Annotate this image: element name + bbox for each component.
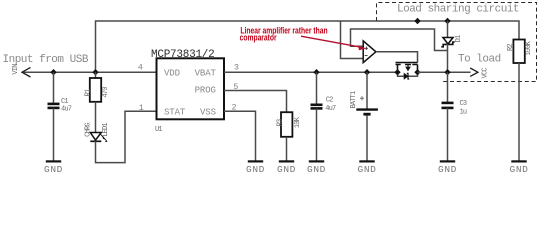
pin label STAT <box>164 107 186 117</box>
transistor Q1 body diode symbol <box>404 73 409 79</box>
wire op-amp minus input riser <box>341 21 364 59</box>
node junction MOSFET drain <box>414 69 420 75</box>
pin number 1 <box>139 103 144 113</box>
wire C3 drop <box>447 72 449 102</box>
svg-text:100K: 100K <box>525 40 533 55</box>
label CHRG <box>85 123 93 137</box>
label R2 <box>507 44 515 51</box>
pin number 4 <box>138 63 143 73</box>
ground C1 <box>44 161 63 174</box>
svg-text:Load sharing circuit: Load sharing circuit <box>397 3 519 15</box>
input arrow (from USB) <box>22 67 31 77</box>
pin number 2 <box>232 102 237 112</box>
svg-text:R2: R2 <box>507 44 515 51</box>
svg-text:R1: R1 <box>85 89 93 96</box>
diode D1 schottky <box>441 38 454 47</box>
svg-text:CHRG: CHRG <box>85 123 93 137</box>
resistor R2 <box>513 40 524 64</box>
pin label VBAT <box>195 68 217 78</box>
transistor Q1 P-MOSFET gate plate <box>396 62 418 64</box>
op-amp plus mark <box>365 47 368 50</box>
wire rail to R1 <box>95 72 97 78</box>
wire VBAT rail (pin 3) <box>224 71 398 73</box>
svg-text:GND: GND <box>277 164 296 175</box>
label Input from USB <box>3 54 89 66</box>
wire C2 to ground <box>316 109 318 162</box>
svg-text:470: 470 <box>102 87 110 98</box>
svg-text:1: 1 <box>139 103 144 113</box>
op-amp <box>363 41 376 63</box>
dashed box load sharing circuit <box>377 3 537 82</box>
svg-text:4u7: 4u7 <box>61 106 72 114</box>
wire op-amp output to gate <box>376 52 418 63</box>
svg-text:C3: C3 <box>460 100 467 108</box>
wire D1 anode drop <box>447 21 449 38</box>
label R2 value 100K <box>525 40 533 55</box>
svg-text:D1: D1 <box>455 35 463 42</box>
wire R1 to LED1 <box>95 102 97 133</box>
wire C2 drop <box>316 72 318 104</box>
IC U1 MCP73831/2 body <box>157 58 225 119</box>
svg-text:R3: R3 <box>276 119 284 126</box>
svg-text:VIN: VIN <box>12 64 20 75</box>
svg-text:STAT: STAT <box>164 107 186 117</box>
op-amp minus mark <box>365 55 368 57</box>
capacitor C2 <box>311 105 323 109</box>
resistor R3 <box>281 112 292 137</box>
svg-text:Input from USB: Input from USB <box>3 54 89 66</box>
net label VIN <box>12 64 20 75</box>
transistor Q1 channel segments <box>396 65 418 73</box>
ground C2 <box>307 161 326 174</box>
label D1 <box>455 35 463 42</box>
pin label VDD <box>164 68 180 78</box>
label U1 <box>155 126 162 134</box>
svg-text:VDD: VDD <box>164 68 180 78</box>
svg-text:GND: GND <box>44 164 63 175</box>
ground R3 <box>277 161 296 174</box>
svg-text:4u7: 4u7 <box>325 105 336 113</box>
svg-text:GND: GND <box>358 164 377 175</box>
battery BATT1 <box>356 110 378 115</box>
label C2 value <box>325 97 336 114</box>
svg-text:3: 3 <box>234 62 239 72</box>
node junction C2/rail <box>313 69 319 75</box>
svg-text:BATT1: BATT1 <box>350 91 358 109</box>
annotation red text <box>240 25 328 42</box>
svg-text:comparator: comparator <box>240 33 277 43</box>
ground R2 <box>510 161 529 174</box>
svg-text:GND: GND <box>438 164 457 175</box>
ground VSS <box>246 161 265 174</box>
node junction top wire / op-amp feed <box>414 18 420 24</box>
wire C3 to ground <box>447 108 449 161</box>
wire R2 to ground <box>518 63 520 161</box>
resistor R1 <box>90 78 101 102</box>
node junction R1/rail <box>92 69 98 75</box>
svg-text:10K: 10K <box>294 116 302 128</box>
node junction load/C3 <box>444 69 450 75</box>
label C1 value <box>61 98 72 114</box>
svg-text:VCC: VCC <box>482 68 490 79</box>
wire LED1 to STAT <box>96 111 157 162</box>
transistor Q1 body diode loop <box>398 72 418 76</box>
node junction top wire / D1 <box>444 18 450 24</box>
wire BATT1 to ground <box>366 116 368 161</box>
wire load rail <box>418 71 471 73</box>
wire top VIN feed <box>96 21 520 72</box>
ground BATT1 <box>358 161 377 174</box>
label BATT1 <box>350 91 358 109</box>
wire VIN rail <box>22 71 157 73</box>
pin number 3 <box>234 62 239 72</box>
label C3 value <box>460 100 467 117</box>
pin number 5 <box>233 82 238 92</box>
svg-text:C2: C2 <box>326 97 333 105</box>
capacitor C1 <box>48 104 60 108</box>
label Load sharing circuit <box>397 3 519 15</box>
battery plus mark <box>360 96 364 100</box>
node junction BATT1/rail <box>364 69 370 75</box>
label R1 <box>85 89 93 96</box>
svg-text:PROG: PROG <box>195 86 216 96</box>
pin label VSS <box>200 107 216 117</box>
node junction MOSFET source <box>394 69 400 75</box>
ground C3 <box>438 161 457 174</box>
svg-text:4: 4 <box>138 63 143 73</box>
svg-text:GND: GND <box>246 164 265 175</box>
wire C1 to ground <box>53 108 55 161</box>
capacitor C3 <box>442 103 454 108</box>
wire PROG (pin 5) to R3 <box>224 91 287 113</box>
wire op-amp plus input loop <box>351 29 448 51</box>
net label VCC <box>482 68 490 79</box>
label LED1 <box>102 123 110 137</box>
transistor Q1 bulk arrow <box>405 65 411 72</box>
svg-text:To load: To load <box>458 54 501 66</box>
label R1 value 470 <box>102 87 110 98</box>
svg-text:VBAT: VBAT <box>195 68 217 78</box>
svg-text:GND: GND <box>307 164 326 175</box>
to load arrow <box>470 68 478 76</box>
LED LED1 <box>90 133 107 142</box>
label R3 value 10K <box>294 116 302 128</box>
wire C1 drop <box>53 72 55 103</box>
pin label PROG <box>195 86 216 96</box>
svg-text:1u: 1u <box>460 109 467 117</box>
wire D1 cathode to load rail <box>447 44 449 72</box>
svg-text:U1: U1 <box>155 126 162 134</box>
svg-text:LED1: LED1 <box>102 123 110 137</box>
svg-text:VSS: VSS <box>200 107 216 117</box>
label To load <box>458 54 501 66</box>
wire BATT1 drop <box>366 72 368 109</box>
op-amp chip MCP73831/2 title <box>151 49 215 61</box>
svg-text:GND: GND <box>510 164 529 175</box>
annotation red arrow <box>301 36 366 50</box>
label R3 <box>276 119 284 126</box>
wire VSS (pin 2) to ground <box>224 111 256 161</box>
wire R3 to ground <box>286 137 288 161</box>
node junction C1/rail <box>50 69 56 75</box>
